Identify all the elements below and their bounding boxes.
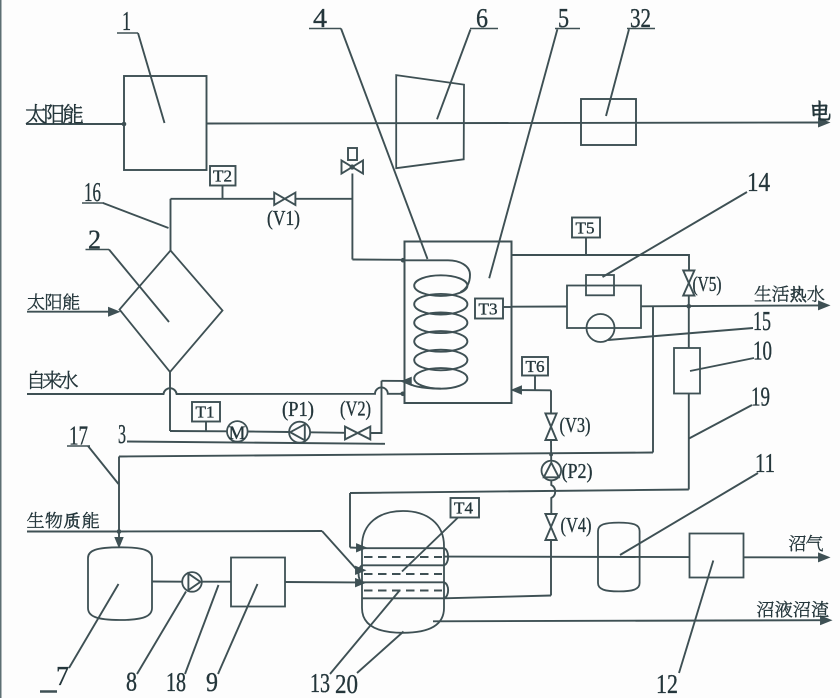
wire T5 stem: [585, 238, 587, 256]
wire diamond bottom drop: [169, 372, 171, 431]
label 太阳能 (solar energy) top-left: [26, 104, 83, 124]
label 5 with underline: [555, 3, 580, 33]
svg-text:(V5): (V5): [693, 272, 722, 296]
digester coil dashed lines: [364, 557, 442, 591]
wire V1 line left segment: [171, 198, 275, 200]
wire biomass diagonal into digester: [322, 531, 357, 570]
wire P2 down with hop over line: [551, 480, 555, 514]
wire T6 corner down to V3: [550, 390, 552, 413]
wire box 9 to digester: [285, 581, 356, 583]
wire riser 17 vertical: [118, 457, 120, 543]
node junction on return line: [549, 453, 553, 457]
wire P1 to V2: [310, 431, 345, 434]
svg-text:(V1): (V1): [267, 206, 300, 230]
wire box 1 to electricity output: [207, 123, 825, 124]
arrowhead into digester coil inlet: [357, 545, 365, 552]
svg-text:14: 14: [747, 167, 770, 197]
pump P2 circle: [542, 461, 562, 481]
wire tap water line with hops: [27, 387, 403, 394]
box 12 biogas purifier: [690, 534, 744, 578]
label 沼液沼渣 (slurry and residue): [757, 601, 828, 618]
arrowhead coil outlet pointing left: [403, 378, 411, 385]
digester coil right bend lower: [444, 582, 448, 598]
node junction biomass line: [117, 529, 122, 534]
arrowhead electricity output: [819, 119, 828, 126]
label 15: [753, 306, 771, 336]
svg-text:13: 13: [310, 668, 330, 698]
wire V1 line right segment: [295, 198, 352, 200]
leader line for label 5: [489, 29, 557, 278]
wire T1 stem: [205, 422, 207, 432]
leader line for label 9: [218, 584, 258, 674]
sensor box T5: [572, 218, 600, 238]
valve V5 bowtie vertical: [683, 271, 694, 296]
wire T3 stem to tank wall: [503, 306, 512, 308]
svg-text:1: 1: [122, 6, 131, 36]
wire T6 stem: [534, 376, 536, 390]
scan artifact dash bottom-left: [40, 690, 57, 693]
heat pump outer box: [567, 286, 641, 329]
wire T6 line into tank: [513, 389, 551, 391]
label 32 with underline: [627, 3, 655, 33]
coil 4 inlet curve: [405, 260, 471, 292]
arrowhead into tank lower right pointing left: [513, 387, 521, 394]
wire long return line 17 horizontal: [119, 453, 653, 457]
label (V5): [693, 272, 722, 296]
svg-text:19: 19: [751, 382, 770, 412]
svg-text:T6: T6: [526, 357, 545, 376]
label 1 with underline: [117, 6, 138, 36]
turbine 6 trapezoid: [396, 75, 464, 168]
motor valve bowtie: [342, 160, 364, 173]
svg-text:20: 20: [335, 669, 358, 698]
svg-text:T3: T3: [479, 300, 498, 319]
wire V4 down to digester return: [550, 540, 552, 596]
valve V4 bowtie vertical: [545, 514, 556, 540]
leader line for label 18: [185, 585, 219, 674]
digester coil solid lines: [363, 548, 445, 598]
wire slurry residue line: [433, 620, 826, 621]
leader line for label 17: [88, 446, 119, 484]
svg-text:T1: T1: [196, 403, 215, 422]
svg-text:8: 8: [126, 667, 137, 697]
box 9 pretreatment: [231, 558, 285, 607]
label 6 with underline: [470, 3, 498, 33]
svg-text:(P2): (P2): [562, 459, 593, 483]
arrowhead biomass into digester: [356, 567, 364, 574]
wire line to digester inlet horizontal: [350, 490, 689, 494]
svg-text:(V3): (V3): [560, 413, 591, 437]
valve V1 bowtie: [274, 193, 295, 205]
label 10: [753, 336, 772, 366]
label 7: [56, 661, 69, 691]
svg-text:12: 12: [656, 669, 678, 698]
arrowhead into diamond: [109, 308, 118, 315]
leader line for label 10: [690, 358, 754, 371]
svg-text:T5: T5: [576, 219, 595, 238]
leader line for label 14: [603, 192, 748, 277]
wire box 10 down: [688, 394, 690, 490]
label 4 with underline: [309, 3, 341, 33]
wire biomass energy line: [27, 531, 119, 533]
box 32 generator: [581, 99, 636, 145]
pump 8 triangle right: [188, 574, 200, 591]
valve V3 bowtie vertical: [545, 414, 556, 441]
wire V2 elbow up: [370, 381, 381, 433]
wire biomass line to digester: [119, 530, 322, 533]
sensor box T1: [192, 402, 220, 422]
node junction V5 on hot-water line: [687, 304, 692, 309]
svg-text:T4: T4: [454, 499, 473, 518]
motor M circle: [227, 421, 248, 444]
wire digester inlet stub: [350, 547, 357, 549]
digester coil left bend: [359, 565, 363, 582]
wire diamond top to V1 line: [170, 199, 172, 251]
label 12: [656, 669, 678, 698]
box 1 solar collector: [124, 76, 207, 170]
leader line for label 20: [357, 632, 404, 674]
wire V5 branch to box 10: [688, 306, 690, 348]
tank 7 vessel: [88, 547, 152, 620]
label (V3): [560, 413, 591, 437]
svg-text:3: 3: [118, 419, 126, 449]
box 10 filter: [674, 348, 700, 394]
label 13: [310, 668, 330, 698]
coil 4 helix ellipses: [414, 275, 467, 388]
leader T4 stem diagonal: [402, 518, 458, 572]
arrowhead domestic hot water: [819, 302, 828, 309]
pump P1 triangle left: [290, 424, 305, 440]
wire riser to relief valve: [351, 174, 353, 260]
leader line for label 13: [330, 590, 400, 674]
pump P1 circle: [289, 422, 310, 443]
wire heat pump branch riser x653: [652, 306, 654, 452]
heat exchanger diamond 2: [120, 251, 223, 373]
label 太阳能 (solar energy) middle-left: [28, 294, 80, 310]
arrowhead down into tank 7: [116, 538, 123, 546]
wire biogas line digester to box 12: [444, 556, 690, 559]
wire tank to heat pump: [512, 306, 568, 308]
wire heat pump to domestic hot water output: [641, 304, 824, 307]
tank 5 storage tank: [405, 242, 512, 404]
arrowhead slurry residue output: [821, 617, 830, 624]
wire solar energy arrow line: [27, 311, 110, 313]
pump circle 15: [587, 314, 615, 342]
motor valve actuator square: [348, 148, 357, 160]
label 沼气 (biogas): [789, 535, 823, 551]
wire V5 to hot-water line: [688, 296, 690, 307]
leader line for label 1: [138, 33, 165, 123]
digester coil right bend upper: [444, 548, 448, 565]
label (V1): [267, 206, 300, 230]
sensor box T6: [522, 357, 548, 376]
label 20: [335, 669, 358, 698]
digester tank 20 vessel: [362, 511, 444, 633]
valve V2 bowtie: [345, 427, 370, 440]
wire coil outlet stub: [382, 380, 405, 382]
svg-text:10: 10: [753, 336, 772, 366]
svg-text:18: 18: [166, 667, 186, 697]
label 16 with underline: [82, 177, 104, 207]
label (V2): [340, 397, 371, 421]
scan edge artifact left border: [0, 0, 2, 698]
label 18: [166, 667, 186, 697]
label 19: [751, 382, 770, 412]
wire tank to V5 riser: [512, 255, 690, 271]
svg-text:9: 9: [206, 667, 218, 697]
wire digester coil outlet to V4 riser: [444, 596, 551, 599]
coil 4 outlet curve: [407, 381, 441, 389]
wire box 12 to biogas output: [744, 556, 825, 558]
leader line for label 2: [109, 250, 169, 323]
label 电 (electricity) top-right: [812, 101, 830, 121]
wire diamond to motor M: [170, 430, 227, 432]
leader line for label 19: [689, 405, 752, 439]
label 生活热水 (domestic hot water): [755, 286, 825, 303]
leader line for label 8: [137, 592, 186, 675]
arrowhead feed into digester: [356, 579, 364, 586]
leader line for label 15: [608, 328, 753, 340]
wire solar-energy input to box 1: [26, 123, 124, 125]
node junction at box 1 inlet: [122, 122, 127, 127]
leader line for label 11: [620, 473, 758, 555]
label 17 with underline: [67, 421, 90, 451]
leader line for label 4: [341, 29, 428, 260]
wire T2 stem: [222, 186, 224, 199]
svg-text:(V4): (V4): [561, 513, 592, 537]
label 生物质能 (biomass energy): [27, 512, 99, 529]
sensor box T4: [451, 498, 480, 518]
label 3: [118, 419, 126, 449]
leader line for label 7: [69, 584, 119, 668]
label 2 with underline: [86, 225, 110, 255]
label 14: [747, 167, 770, 197]
svg-text:T2: T2: [213, 167, 232, 186]
leader line for label 32: [606, 29, 629, 116]
label 8: [126, 667, 137, 697]
pump 8 circle: [182, 572, 202, 592]
svg-text:(V2): (V2): [340, 397, 371, 421]
node junction coil inlet on tank wall: [401, 258, 406, 263]
svg-text:M: M: [229, 423, 246, 444]
svg-text:7: 7: [56, 661, 69, 691]
label (P2): [562, 459, 593, 483]
wire elbow into tank coil inlet: [352, 259, 404, 261]
svg-text:(P1): (P1): [282, 397, 314, 421]
wire tank 7 to pump 8: [152, 581, 182, 583]
arrowhead biogas output: [819, 554, 828, 561]
pump P2 triangle up: [544, 463, 559, 478]
cylinder 11 vessel: [598, 523, 640, 592]
leader line for label 6: [437, 30, 471, 120]
compressor small box 14: [586, 275, 614, 295]
sensor box T3: [475, 299, 503, 319]
wire pump 8 to box 9: [202, 581, 231, 583]
label 自来水 (tap water): [30, 371, 78, 389]
wire V3 to P2: [550, 440, 552, 461]
node junction tap water on tank wall: [401, 392, 406, 397]
sensor box T2: [210, 166, 236, 186]
label 9: [206, 667, 218, 697]
wire digester inlet drop x350: [349, 493, 351, 548]
leader line for label 16: [103, 203, 169, 228]
label (P1): [282, 397, 314, 421]
label 11: [755, 448, 775, 478]
label (V4): [561, 513, 592, 537]
leader line for label 12: [679, 561, 713, 674]
svg-text:15: 15: [753, 306, 771, 336]
wire M to P1: [248, 431, 290, 434]
leader line for label 3: [127, 442, 385, 444]
